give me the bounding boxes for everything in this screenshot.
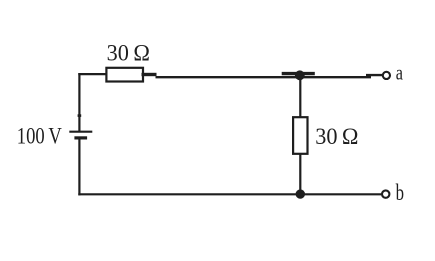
wire: thick stub at right lead of R1 [142,73,157,76]
resistor R1 30 ohm (horizontal box) [106,68,143,82]
battery V1 positive long plate [69,131,92,133]
svg-text:100 V: 100 V [17,123,62,148]
wire: top-left horizontal from corner to resistor R1 [78,73,107,75]
wire: thick stub over top node [282,72,315,75]
wire: left vertical, top corner down to battery positive plate [78,73,80,132]
wire: vertical branch from R2 down to bottom node [299,153,301,194]
terminal a (open circle) [383,72,390,79]
wire: left vertical, battery negative plate down to bottom corner [78,138,80,196]
node: bottom junction dot [296,189,305,198]
resistor R2 30 ohm (vertical box) [293,117,307,154]
terminal b (open circle) [382,190,389,197]
wire: short link into terminal a [366,74,382,76]
node: top junction dot [295,70,305,80]
wire: bottom horizontal from battery corner to terminal b [78,193,381,195]
svg-text:a: a [396,61,404,85]
wire: vertical branch from top node down to resistor R2 [299,75,301,118]
battery V1 negative short plate [74,136,87,139]
svg-text:30 Ω: 30 Ω [107,40,150,65]
svg-text:30 Ω: 30 Ω [315,124,358,149]
junction tick on left wire above battery [78,114,82,117]
wire: main top horizontal toward terminal a [156,76,372,78]
svg-text:b: b [396,180,404,205]
